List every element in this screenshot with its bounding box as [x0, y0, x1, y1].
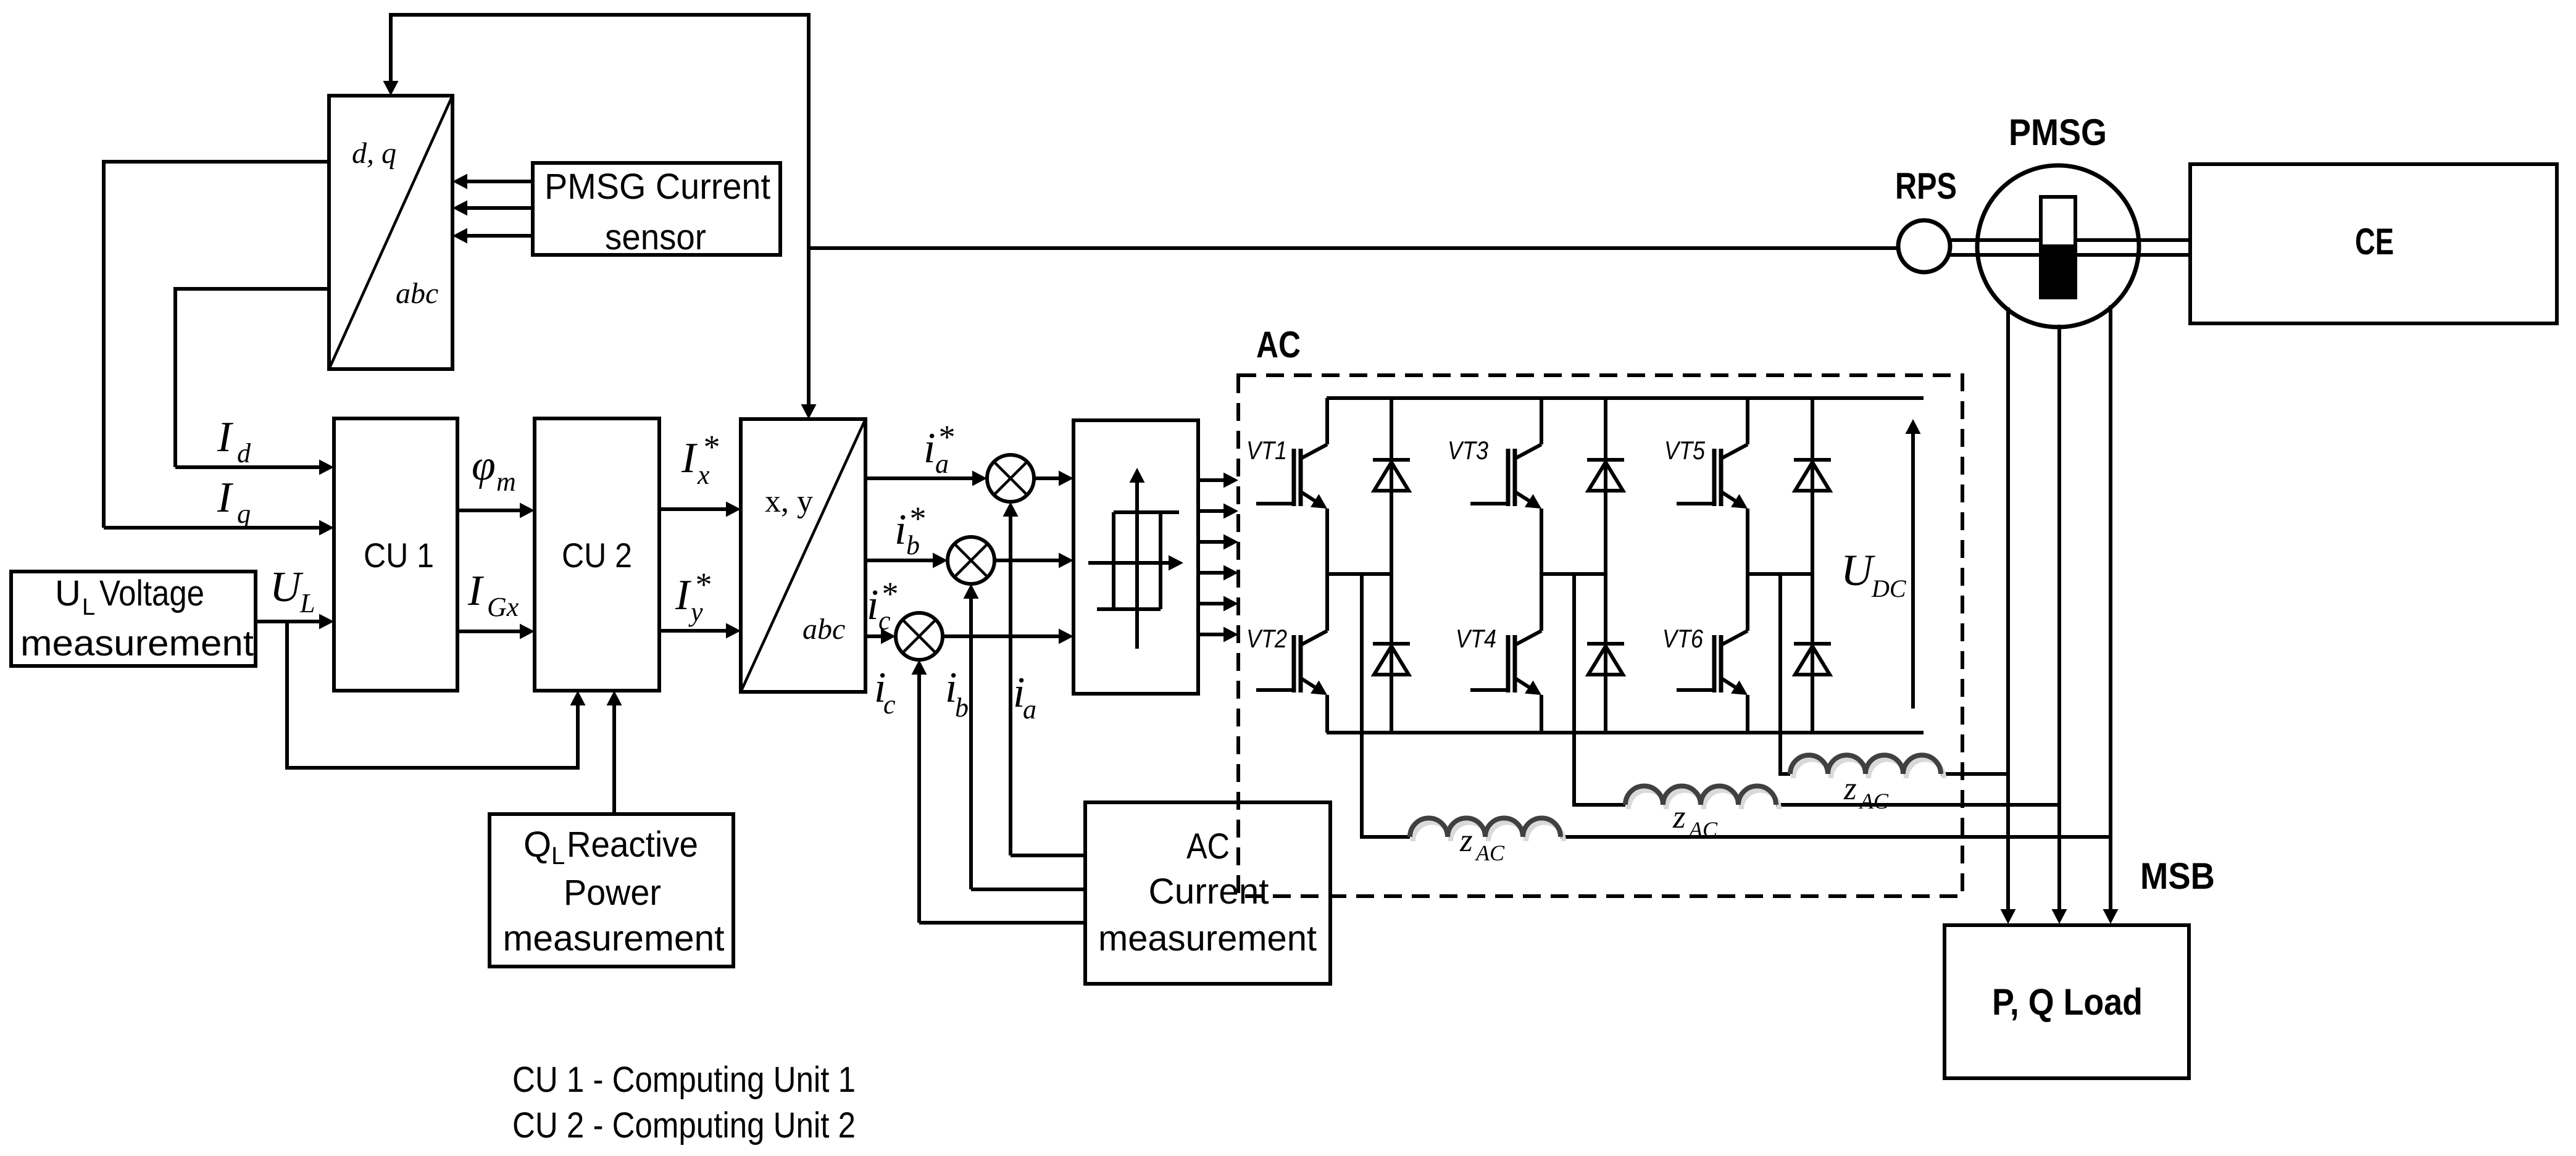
- IGBT VT3: [1470, 502, 1509, 505]
- wire Iy*: CU2 to x,y block: [659, 629, 728, 633]
- IGBT VT6 emitter wire: [1746, 695, 1749, 733]
- svg-text:AC: AC: [1688, 817, 1718, 842]
- block: hysteresis current controller: [1073, 420, 1198, 694]
- block: QL reactive power measurement: [490, 814, 733, 967]
- phase output wire (leg VT3): [1574, 574, 1625, 805]
- IGBT VT4: [1470, 688, 1509, 692]
- IGBT VT5: [1677, 502, 1715, 505]
- svg-text:c: c: [883, 689, 896, 720]
- IGBT VT4 collector wire: [1540, 574, 1543, 631]
- svg-text:VT5: VT5: [1664, 436, 1706, 465]
- block P,Q Load: [1945, 925, 2189, 1078]
- svg-text:U: U: [270, 563, 304, 611]
- multiplier 3 (phase c): [896, 613, 943, 660]
- multiplier 2 (phase b): [948, 537, 994, 584]
- svg-text:abc: abc: [396, 277, 438, 310]
- svg-text:I: I: [467, 567, 485, 615]
- svg-text:U: U: [1841, 546, 1875, 595]
- svg-text:i: i: [894, 506, 906, 554]
- svg-text:PMSG: PMSG: [2009, 112, 2107, 153]
- shaft upper line: [1950, 238, 2190, 242]
- inductor z_AC phase b: [1628, 790, 1779, 809]
- wire QL: box to CU2 bottom: [612, 704, 616, 814]
- gate pulse arrow 2 to inverter: [1198, 509, 1225, 513]
- block: PMSG current sensor: [533, 163, 780, 255]
- svg-text:measurement: measurement: [1098, 918, 1317, 958]
- wire IGx: CU1 to CU2: [457, 630, 522, 633]
- freewheel diode upper (leg VT1): [1373, 458, 1410, 462]
- IGBT VT6 collector wire: [1746, 574, 1749, 631]
- svg-text:VT3: VT3: [1448, 436, 1488, 465]
- wire: angle feedback top route into d,q block: [391, 15, 809, 248]
- freewheel diode upper (leg VT3): [1587, 458, 1624, 462]
- block CU 1: [334, 418, 457, 691]
- IGBT VT3 collector wire: [1540, 398, 1543, 444]
- block: x,y/abc transformation: [741, 419, 865, 692]
- svg-text:RPS: RPS: [1895, 165, 1957, 207]
- wire: sensor to d,q arrow 2: [465, 206, 533, 210]
- svg-text:VT4: VT4: [1456, 624, 1496, 653]
- IGBT VT5 emitter wire: [1746, 509, 1749, 574]
- svg-text:CU 1 - Computing Unit 1: CU 1 - Computing Unit 1: [512, 1060, 856, 1100]
- freewheel diode lower (leg VT5): [1794, 642, 1831, 646]
- phase output wire (leg VT1): [1362, 574, 1410, 837]
- wire: long horizontal line from RPS to feedback junction: [809, 246, 1898, 250]
- svg-text:y: y: [688, 597, 703, 627]
- svg-text:L: L: [82, 594, 95, 620]
- svg-text:i: i: [867, 581, 878, 629]
- IGBT VT4 emitter wire: [1540, 695, 1543, 733]
- wire Iq: d,q block to CU1: [104, 162, 329, 528]
- svg-text:q: q: [237, 499, 251, 529]
- svg-text:x, y: x, y: [765, 484, 813, 519]
- freewheel diode lower (leg VT3): [1587, 642, 1624, 646]
- wire Ix*: CU2 to x,y block: [659, 507, 728, 511]
- svg-text:b: b: [906, 530, 920, 560]
- hysteresis horizontal axis: [1088, 561, 1170, 565]
- wire phi_m: CU1 to CU2: [457, 509, 522, 512]
- svg-text:AC: AC: [1859, 789, 1889, 813]
- inductor z_AC phase a: [1413, 822, 1564, 841]
- MSB feeder line 1: [2006, 307, 2010, 911]
- freewheel diode upper (leg VT5): [1794, 458, 1831, 462]
- svg-text:z: z: [1459, 823, 1473, 859]
- svg-text:VT2: VT2: [1246, 624, 1287, 653]
- multiplier 1 (phase a): [987, 455, 1034, 502]
- hysteresis loop: [1112, 512, 1115, 609]
- svg-text:Voltage: Voltage: [99, 573, 204, 613]
- block CE: [2190, 164, 2557, 323]
- svg-text:VT1: VT1: [1246, 436, 1287, 465]
- svg-text:φ: φ: [472, 442, 496, 489]
- svg-text:PMSG Current: PMSG Current: [544, 167, 770, 207]
- gate pulse arrow 3 to inverter: [1198, 540, 1225, 544]
- freewheel diode lower (leg VT1): [1373, 642, 1410, 646]
- IGBT VT1 emitter wire: [1325, 509, 1329, 574]
- hysteresis vertical axis: [1135, 481, 1139, 649]
- PMSG magnet black half: [2041, 246, 2075, 297]
- svg-text:U: U: [55, 573, 81, 613]
- wire ic: AC current measurement to multiplier 3: [919, 921, 1085, 925]
- IGBT VT3 emitter wire: [1540, 509, 1543, 574]
- freewheel diode wire (leg VT3): [1604, 398, 1607, 733]
- svg-text:AC: AC: [1186, 826, 1230, 867]
- MSB feeder line 2: [2057, 325, 2061, 911]
- svg-text:sensor: sensor: [605, 217, 706, 257]
- IGBT VT2: [1256, 688, 1294, 692]
- wire ib: AC current measurement to multiplier 2: [971, 888, 1085, 891]
- IGBT VT2 collector wire: [1325, 574, 1329, 631]
- svg-text:L: L: [299, 588, 315, 618]
- svg-text:DC: DC: [1871, 575, 1907, 602]
- svg-text:abc: abc: [802, 613, 845, 646]
- wire UL: box to CU1: [256, 620, 321, 623]
- PMSG circle: [1977, 165, 2139, 327]
- svg-text:L: L: [551, 842, 565, 870]
- wire ia*: x,y block to multiplier 1: [865, 476, 974, 480]
- svg-text:m: m: [496, 467, 516, 497]
- svg-text:Power: Power: [564, 873, 661, 913]
- svg-text:d, q: d, q: [352, 137, 396, 170]
- block: UL voltage measurement: [11, 572, 256, 666]
- wire ic*: x,y block to multiplier 3: [865, 634, 883, 638]
- phase midpoint wire (leg VT5): [1748, 572, 1812, 576]
- block: d,q/abc transformation: [329, 96, 452, 369]
- svg-text:CU 2 - Computing Unit 2: CU 2 - Computing Unit 2: [512, 1105, 856, 1146]
- wire: multiplier 1 to hysteresis block: [1034, 476, 1061, 480]
- svg-text:I: I: [217, 414, 234, 461]
- svg-text:CE: CE: [2355, 221, 2394, 262]
- svg-text:measurement: measurement: [20, 623, 254, 663]
- wire: angle feedback branch into x,y block: [807, 248, 811, 406]
- svg-text:VT6: VT6: [1662, 624, 1704, 653]
- svg-text:a: a: [935, 449, 949, 479]
- svg-text:a: a: [1023, 694, 1036, 725]
- PMSG magnet white half: [2041, 197, 2075, 246]
- IGBT VT1 collector wire: [1325, 398, 1329, 444]
- svg-text:Gx: Gx: [487, 592, 519, 622]
- svg-text:i: i: [923, 425, 935, 472]
- svg-text:P, Q Load: P, Q Load: [1992, 981, 2143, 1023]
- svg-text:b: b: [955, 692, 969, 723]
- svg-text:I: I: [217, 474, 234, 522]
- svg-text:Q: Q: [523, 825, 551, 865]
- freewheel diode wire (leg VT1): [1390, 398, 1393, 733]
- phase midpoint wire (leg VT1): [1327, 572, 1391, 576]
- svg-text:x: x: [697, 460, 710, 490]
- svg-text:AC: AC: [1475, 841, 1505, 865]
- svg-text:I: I: [681, 435, 698, 482]
- gate pulse arrow 5 to inverter: [1198, 602, 1225, 605]
- DC bus bottom: [1327, 731, 1924, 734]
- svg-text:Current: Current: [1149, 871, 1269, 912]
- wire ia: AC current measurement to multiplier 1: [1011, 854, 1085, 857]
- wire Id: d,q block to CU1: [175, 289, 329, 467]
- wire: multiplier 3 to hysteresis block: [943, 634, 1061, 638]
- svg-text:I: I: [675, 572, 692, 619]
- gate pulse arrow 1 to inverter: [1198, 478, 1225, 482]
- gate pulse arrow 6 to inverter: [1198, 633, 1225, 636]
- svg-text:CU 1: CU 1: [364, 536, 434, 575]
- RPS circle: [1898, 220, 1950, 272]
- svg-text:Reactive: Reactive: [567, 825, 698, 865]
- wire: multiplier 2 to hysteresis block: [994, 559, 1061, 562]
- IGBT VT1: [1256, 502, 1294, 505]
- IGBT VT2 emitter wire: [1325, 695, 1329, 733]
- IGBT VT5 collector wire: [1746, 398, 1749, 444]
- inductor z_AC phase c: [1793, 760, 1944, 779]
- MSB feeder line 3: [2109, 306, 2112, 911]
- DC bus top: [1327, 396, 1924, 400]
- phase output wire (leg VT5): [1780, 574, 1790, 774]
- phase midpoint wire (leg VT3): [1541, 572, 1606, 576]
- wire: sensor to d,q arrow 3: [465, 234, 533, 238]
- svg-text:CU 2: CU 2: [562, 536, 632, 575]
- svg-text:d: d: [237, 438, 251, 468]
- svg-text:z: z: [1843, 771, 1857, 807]
- svg-text:AC: AC: [1256, 324, 1301, 365]
- U_DC arrow: [1911, 432, 1915, 709]
- wire ib*: x,y block to multiplier 2: [865, 559, 935, 562]
- wire UL branch to CU2 bottom: [287, 622, 578, 768]
- wire: sensor to d,q arrow 1: [465, 180, 533, 183]
- svg-text:z: z: [1672, 799, 1686, 835]
- block CU 2: [535, 418, 659, 691]
- shaft lower line: [1950, 253, 2190, 257]
- svg-text:measurement: measurement: [503, 918, 725, 958]
- block: AC current measurement: [1085, 802, 1330, 984]
- svg-text:c: c: [878, 605, 891, 636]
- svg-text:MSB: MSB: [2140, 855, 2215, 897]
- gate pulse arrow 4 to inverter: [1198, 571, 1225, 575]
- IGBT VT6: [1677, 688, 1715, 692]
- freewheel diode wire (leg VT5): [1811, 398, 1814, 733]
- AC converter dashed boundary: [1238, 375, 1962, 896]
